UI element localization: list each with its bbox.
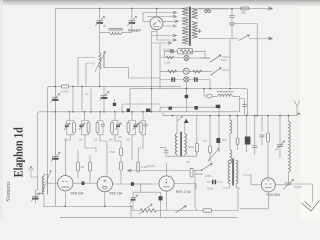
trimmer capacitor C6 bbox=[100, 92, 109, 101]
wire lamp3 down to bus bbox=[185, 82, 187, 89]
antenna symbol right bbox=[294, 101, 300, 116]
tube V2 envelope bbox=[58, 176, 73, 191]
arrow tap y16.5 bbox=[173, 15, 177, 18]
switch S3 mains bbox=[232, 35, 269, 41]
trimmer capacitor C14 bbox=[130, 192, 138, 210]
capacitor C18 stack bbox=[229, 23, 234, 39]
arrow tap y12.5 bbox=[173, 11, 177, 14]
wire drop x237.5 bbox=[237, 116, 239, 138]
rail R3 horizontal bbox=[160, 107, 219, 115]
RC pair 3 resistor bbox=[96, 112, 103, 135]
wire link cap to frame bbox=[232, 22, 257, 25]
RC pair 2 trimmer cap bbox=[79, 112, 89, 135]
capacitor C9 block on B1 bbox=[146, 109, 150, 112]
wire tap y16.5 bbox=[147, 16, 175, 18]
resistor R10 vertical bbox=[195, 116, 198, 157]
capacitor C17 stack bbox=[229, 9, 234, 23]
RC pair2 joins bbox=[82, 135, 97, 152]
tube V2 electrodes bbox=[61, 182, 69, 187]
wire row2 stub to x230 bbox=[222, 69, 230, 71]
lamp row1 wire bbox=[164, 57, 184, 59]
RC pair1 joins bbox=[65, 135, 74, 140]
resistor R16 bbox=[190, 168, 193, 177]
power transformer TR3 bbox=[228, 159, 238, 186]
wire V4 anode up link bbox=[174, 184, 196, 191]
capacitor C10 block bbox=[169, 107, 172, 110]
wire x230 drop to rail bbox=[229, 39, 231, 87]
svg-text:RES 164: RES 164 bbox=[110, 191, 123, 195]
wire V1 cathode down bbox=[152, 30, 157, 112]
capacitor C20 bbox=[260, 135, 265, 145]
antenna coil L3 bbox=[35, 171, 51, 195]
tube V4 envelope bbox=[159, 176, 174, 191]
wire V4 top bbox=[166, 163, 168, 176]
wire x55.3 middle bbox=[54, 86, 56, 155]
wire coil drop x239.5 bbox=[240, 96, 245, 112]
capacitor C15 dark bbox=[216, 138, 220, 143]
svg-text:220V~: 220V~ bbox=[205, 174, 213, 178]
tube V1 envelope bbox=[150, 17, 163, 30]
switch S5 on bottom line bbox=[176, 206, 187, 213]
svg-text:1M: 1M bbox=[79, 138, 83, 142]
tube V4 electrodes bbox=[163, 179, 170, 187]
wire lamp rows left rail bbox=[160, 43, 170, 89]
wire lamp row1 right to switch bbox=[189, 57, 199, 59]
lamp row3 wire bbox=[170, 79, 210, 81]
RC pair 1 trimmer cap bbox=[64, 112, 74, 135]
bottom bus left bbox=[43, 207, 204, 211]
capacitor C25 block dark bbox=[185, 95, 189, 98]
wire x73 drop bbox=[72, 86, 74, 111]
ground symbol right bbox=[302, 184, 320, 211]
RC pair 5 trimmer cap bbox=[133, 121, 139, 135]
resistor R7 between tubes bbox=[77, 150, 80, 178]
trimmer capacitor C1 bbox=[95, 17, 105, 27]
wire x262 drop bbox=[261, 116, 263, 132]
capacitor C23 bbox=[160, 148, 169, 157]
transformer TR1 left winding bbox=[182, 7, 189, 44]
svg-text:0,1: 0,1 bbox=[64, 138, 68, 142]
svg-text:510pF: 510pF bbox=[295, 185, 303, 189]
RC pair 6 resistor bbox=[140, 112, 146, 135]
resistor R15 under pair4 bbox=[115, 136, 122, 184]
arrow tap y21.3 bbox=[175, 20, 179, 23]
wire taps lower group bbox=[152, 31, 175, 43]
switch S1 arm bbox=[200, 55, 221, 62]
arrow tap y43 bbox=[168, 42, 172, 45]
arrow B2 end bbox=[296, 113, 300, 116]
potentiometer P1 bbox=[139, 204, 156, 214]
capacitor C26 bbox=[242, 105, 246, 116]
rail R1 horizontal bbox=[48, 86, 182, 88]
svg-text:150: 150 bbox=[133, 29, 138, 33]
wire TR1 secondary top bbox=[198, 8, 228, 10]
capacitor C4 bbox=[194, 77, 195, 82]
svg-text:RES 174d: RES 174d bbox=[176, 190, 191, 194]
wire stub v217 bbox=[131, 211, 161, 218]
RC pair6 joins bbox=[138, 135, 145, 162]
RC pair5 joins bbox=[129, 135, 136, 160]
arrow tap y40 bbox=[173, 39, 177, 42]
wire drop x219 bbox=[218, 116, 220, 138]
trimmer capacitor C2 bbox=[127, 17, 137, 27]
rail R2 horizontal bbox=[130, 89, 248, 116]
variable capacitor C21 bbox=[276, 116, 285, 158]
wire x257 tall vertical bbox=[256, 24, 258, 116]
wire R1 right bbox=[193, 51, 205, 57]
wire vertical at x=99.7 bbox=[99, 8, 101, 86]
svg-text:REN 904: REN 904 bbox=[71, 191, 84, 195]
svg-text:2M: 2M bbox=[109, 138, 113, 142]
wire lamp3 drop below bus bbox=[185, 89, 187, 112]
trimmer capacitor C24 bbox=[51, 153, 60, 207]
wire row1 stub to x230 bbox=[222, 56, 230, 58]
RC pair 4 resistor bbox=[111, 112, 118, 135]
wire V1 anode right bbox=[162, 21, 177, 27]
capacitor C27 dark on heater line bbox=[131, 182, 134, 186]
wire line y170.5 bbox=[129, 170, 197, 172]
bus B1 bbox=[38, 112, 163, 190]
wire C15 down bbox=[218, 143, 220, 152]
svg-text:Siemens: Siemens bbox=[5, 181, 12, 201]
wire V1 top to bus bbox=[156, 8, 158, 17]
wire left frame vertical bbox=[54, 8, 56, 160]
bottom frame line bbox=[60, 216, 238, 218]
RC pair 3 cap bbox=[101, 121, 105, 135]
switch S4 bottom bbox=[195, 163, 212, 210]
tube V3 electrodes bbox=[103, 180, 106, 182]
resistor R9 vertical bbox=[137, 162, 140, 172]
svg-text:70/St: 70/St bbox=[207, 187, 213, 191]
lamp LA1 bbox=[184, 55, 189, 60]
wire stub left of L2 bbox=[77, 58, 79, 87]
lamp LA2 bbox=[183, 68, 189, 74]
RC pair 2 resistor bbox=[87, 121, 90, 135]
wave trap coil L6 bbox=[212, 92, 239, 97]
capacitor C16 bbox=[252, 116, 257, 155]
wire V4 grid left bbox=[133, 184, 161, 192]
choke L4 on x230 upper bbox=[230, 116, 232, 164]
arrow tap y35.5 bbox=[173, 34, 177, 37]
resistor R14 bbox=[267, 116, 270, 178]
wire V5 left bbox=[243, 175, 261, 185]
svg-text:+0,05: +0,05 bbox=[164, 61, 171, 65]
speaker triangle dark bbox=[184, 119, 189, 123]
wire V5 top bbox=[240, 192, 268, 209]
lamp LA4 small bbox=[170, 49, 174, 53]
RC pair 1 resistor bbox=[73, 121, 76, 135]
wire x82 drop bbox=[81, 86, 83, 111]
wire V2 heater link bbox=[73, 182, 97, 184]
svg-text:5000: 5000 bbox=[188, 145, 194, 149]
wire V3 cathode to bus bbox=[104, 192, 106, 207]
resistor R12 bbox=[236, 138, 239, 150]
resistor R8 bbox=[89, 155, 92, 183]
variable capacitor C22 bbox=[283, 172, 312, 190]
wire L3 bottom bbox=[43, 195, 45, 207]
resistor R2 zigzag bbox=[166, 56, 174, 59]
loudspeaker LS dark bbox=[245, 116, 251, 152]
capacitor C28 block dark bbox=[195, 106, 198, 110]
svg-text:0,5: 0,5 bbox=[186, 160, 190, 164]
wire T2 grid drop bbox=[64, 140, 66, 176]
capacitor C11 left bbox=[31, 190, 40, 203]
transformer TR1 right winding bbox=[192, 9, 198, 39]
wire V2 cathode to bus bbox=[64, 191, 66, 207]
inductor L1 with core bbox=[109, 29, 124, 35]
capacitor C3 bbox=[171, 77, 172, 82]
svg-text:1M: 1M bbox=[203, 139, 207, 143]
resistor R4 zigzag bbox=[193, 70, 202, 73]
tube V5 envelope bbox=[261, 178, 275, 192]
jack J1 oval bbox=[204, 89, 212, 98]
svg-text:1M: 1M bbox=[81, 165, 85, 169]
wire R1 left bbox=[164, 51, 177, 57]
svg-text:MB1: MB1 bbox=[241, 11, 247, 15]
capacitor C13 dark bbox=[159, 192, 163, 210]
resistor R13 on bus bbox=[203, 188, 238, 212]
trimmer capacitor C5 bbox=[51, 94, 60, 103]
svg-text:4μF: 4μF bbox=[222, 138, 227, 142]
svg-text:0,3MΩ: 0,3MΩ bbox=[61, 89, 69, 93]
lamp LA3 bbox=[184, 77, 189, 82]
wire coil row bbox=[100, 31, 132, 33]
wire x104 drop bbox=[103, 86, 105, 111]
RC pair 6 cap bbox=[144, 121, 148, 135]
wire left drop x47 bbox=[47, 89, 49, 175]
wire V2 left cap bbox=[47, 182, 57, 184]
bus B2 bbox=[163, 112, 296, 116]
wire top bus bbox=[55, 7, 269, 9]
RC pair4 joins bbox=[112, 135, 118, 136]
wire x91 drop bbox=[90, 89, 92, 112]
wire TR3 bottom bbox=[223, 184, 240, 188]
capacitor C8 block on B1 bbox=[127, 109, 130, 112]
RC pair3 joins bbox=[98, 135, 108, 176]
svg-text:0,1MΩ: 0,1MΩ bbox=[147, 164, 155, 168]
arrow left end y170.5 bbox=[128, 169, 132, 172]
RC pair 5 resistor bbox=[127, 112, 135, 135]
svg-text:0,5: 0,5 bbox=[126, 138, 130, 142]
wire TR2 bottoms bbox=[166, 155, 197, 157]
svg-text:50000: 50000 bbox=[196, 172, 204, 176]
wire right rail of lamp block bbox=[209, 80, 211, 89]
fuse F1 bbox=[241, 7, 250, 10]
svg-text:0,5M: 0,5M bbox=[109, 150, 115, 154]
wire x122 corner bbox=[122, 104, 160, 112]
transformer TR1 core bbox=[189, 7, 191, 46]
capacitor C7 block bbox=[216, 105, 221, 108]
svg-text:0,5: 0,5 bbox=[118, 135, 122, 139]
wire TR2 left top bbox=[176, 116, 178, 134]
svg-text:0,1: 0,1 bbox=[85, 92, 89, 96]
wire TR2 right top bbox=[184, 123, 186, 134]
capacitor C29 small dark bbox=[113, 99, 116, 106]
variable resistor arrow bbox=[208, 149, 219, 162]
svg-text:2x0,1: 2x0,1 bbox=[221, 58, 228, 62]
variable inductor L2 bbox=[78, 52, 160, 87]
wire TR1 secondary bottom bbox=[198, 38, 232, 40]
capacitor C19 pair bbox=[207, 180, 223, 184]
svg-text:0,2: 0,2 bbox=[94, 138, 98, 142]
tube V5 electrodes bbox=[265, 179, 272, 187]
tube V1 electrodes bbox=[153, 20, 161, 27]
output transformer TR2 bbox=[175, 132, 186, 156]
svg-text:Elaphon 1d: Elaphon 1d bbox=[12, 127, 26, 177]
tube V3 envelope bbox=[97, 176, 112, 191]
capacitor C12 dark on heater line bbox=[82, 181, 85, 185]
arrow S3 end bbox=[268, 37, 273, 40]
lamp row2 wire bbox=[166, 71, 212, 73]
RC pair 4 trimmer cap bbox=[115, 121, 121, 135]
switch S2 arm bbox=[211, 68, 222, 76]
bus B1 right extension bbox=[163, 111, 240, 113]
tall coil L5 bbox=[289, 116, 291, 172]
resistor R5 box bbox=[62, 85, 69, 88]
switch arm above TR2 bbox=[178, 116, 183, 121]
wire V3 heater link bbox=[113, 183, 151, 185]
antenna symbol left bbox=[28, 166, 37, 177]
wire V1 left grid bbox=[143, 13, 175, 22]
resistor R1 box with zigzag bbox=[178, 49, 193, 54]
resistor R11 bbox=[209, 116, 212, 162]
wire V4 cathode drop bbox=[166, 191, 168, 210]
wire vertical at x=131.9 bbox=[131, 8, 133, 32]
arrow top bus end bbox=[268, 7, 273, 10]
resistor R3 zigzag bbox=[168, 70, 177, 73]
